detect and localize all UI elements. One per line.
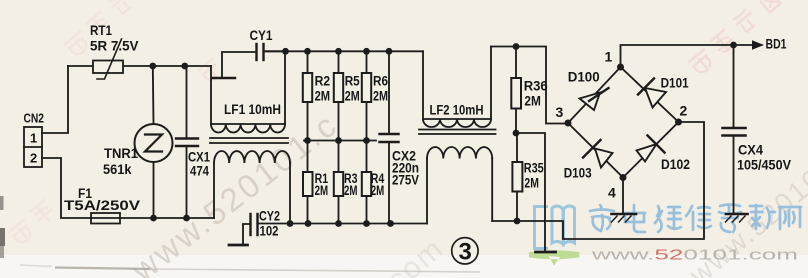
- arrow BD1: [752, 40, 764, 50]
- wire middle rail: [304, 140, 376, 142]
- svg-text:LF2 10mH: LF2 10mH: [430, 103, 484, 118]
- node 2 bridge right: [675, 119, 682, 126]
- chassis ground node 4: [612, 214, 637, 222]
- capacitor CY2: [243, 214, 258, 245]
- capacitor CX1: [176, 66, 198, 218]
- logo green swoosh: [529, 250, 580, 265]
- resistor RT1 (thermistor): [93, 39, 123, 79]
- diode D102: [637, 136, 665, 162]
- svg-text:R2: R2: [315, 73, 331, 88]
- svg-text:R5: R5: [345, 73, 360, 88]
- diode D103: [583, 140, 613, 168]
- figure number 3: [452, 238, 478, 266]
- wire upper rail 2: [264, 50, 424, 52]
- inductor LF1: [210, 51, 290, 223]
- svg-text:D100: D100: [568, 70, 600, 85]
- wire node4 to chassis ground: [622, 178, 624, 214]
- node junction R6/R4 middle: [363, 137, 370, 144]
- svg-text:www.520101.com: www.520101.com: [590, 247, 798, 264]
- node junction R36/R35: [513, 130, 520, 137]
- connector CN2: [24, 127, 42, 167]
- node 3 bridge left: [565, 120, 572, 127]
- wire CN2 pin2 to fuse: [42, 158, 91, 218]
- bridge arm D102 wire: [623, 122, 679, 178]
- svg-text:2M: 2M: [315, 183, 329, 198]
- scan artifacts: [0, 196, 480, 272]
- resistor R3: [334, 141, 343, 224]
- bottom-right site watermark: [529, 205, 801, 266]
- wire node1 to BD1 rail: [621, 45, 753, 67]
- svg-text:CN2: CN2: [24, 111, 45, 126]
- svg-text:5R 7.5V: 5R 7.5V: [90, 38, 139, 54]
- svg-text:2M: 2M: [344, 183, 358, 198]
- svg-text:3: 3: [556, 104, 564, 120]
- svg-text:CX1: CX1: [188, 150, 210, 165]
- svg-text:1: 1: [30, 131, 37, 146]
- node junction CX2 top: [386, 48, 393, 55]
- node dot R35 bottom: [514, 218, 521, 225]
- node junction LF1 top lead / CY1: [282, 48, 289, 55]
- svg-text:2: 2: [680, 103, 688, 119]
- svg-text:R36: R36: [524, 79, 548, 94]
- svg-text:D103: D103: [564, 166, 592, 181]
- svg-text:561k: 561k: [103, 162, 132, 177]
- svg-text:R6: R6: [373, 73, 388, 88]
- node 4 bridge bottom: [620, 174, 627, 181]
- inductor LF2: [419, 47, 496, 224]
- ground mid tap: [536, 251, 556, 254]
- svg-text:2M: 2M: [524, 176, 539, 191]
- svg-text:CY2: CY2: [259, 209, 280, 224]
- svg-text:2M: 2M: [373, 89, 388, 104]
- svg-text:275V: 275V: [392, 173, 419, 188]
- wire lower rail 3 with jog to node 2: [492, 122, 704, 239]
- svg-text:D102: D102: [661, 157, 690, 172]
- node junction R5 top: [335, 48, 342, 55]
- svg-text:4: 4: [608, 185, 616, 201]
- bridge arm D100 wire: [568, 67, 621, 123]
- svg-text:RT1: RT1: [90, 22, 112, 38]
- fuse F1: [91, 213, 214, 224]
- wire CN2 pin1 to top rail: [42, 66, 68, 133]
- node dot CX4 top: [730, 42, 737, 49]
- node junction R2/R1 middle: [304, 137, 311, 144]
- wire mid tap to ground line: [516, 133, 545, 252]
- svg-text:2M: 2M: [345, 89, 360, 104]
- bridge arm D101 wire: [621, 67, 679, 122]
- svg-text:1: 1: [605, 49, 613, 65]
- resistor R1: [303, 141, 313, 224]
- node junction R2 top: [304, 48, 311, 55]
- node junction bottom rail at CX1: [183, 215, 190, 222]
- node 1 bridge top: [617, 64, 624, 71]
- svg-text:LF1 10mH: LF1 10mH: [224, 102, 281, 117]
- svg-text:105/450V: 105/450V: [737, 158, 791, 173]
- ground CY2: [229, 244, 248, 247]
- bridge arm D103 wire: [568, 123, 623, 178]
- resistor R5: [334, 51, 343, 140]
- diode D100: [580, 88, 609, 110]
- wire lower rail 2: [258, 223, 428, 225]
- capacitor CX4: [723, 45, 746, 213]
- svg-text:2M: 2M: [524, 94, 541, 109]
- svg-text:102: 102: [260, 224, 279, 239]
- wire top rail left: [68, 65, 211, 67]
- svg-text:BD1: BD1: [766, 37, 787, 52]
- svg-text:D101: D101: [661, 76, 689, 91]
- resistor R36: [511, 47, 521, 134]
- capacitor CY1: [212, 44, 286, 78]
- svg-text:T5A/250V: T5A/250V: [64, 198, 140, 213]
- node junction R4 bottom: [363, 220, 370, 227]
- svg-text:3: 3: [459, 239, 472, 266]
- varistor TNR1: [135, 66, 173, 218]
- svg-text:2: 2: [30, 151, 37, 166]
- svg-text:TNR1: TNR1: [104, 146, 138, 161]
- node junction R6 top: [363, 48, 370, 55]
- node junction CX2 bottom: [387, 220, 394, 227]
- node junction top rail at TNR1: [149, 63, 156, 70]
- svg-text:R35: R35: [524, 161, 544, 176]
- chassis ground CX4: [726, 214, 748, 222]
- logo book: [535, 206, 575, 249]
- node junction R1 bottom: [305, 220, 312, 227]
- svg-text:2M: 2M: [315, 89, 331, 104]
- node junction bottom rail at TNR1: [150, 215, 157, 222]
- resistor R35: [512, 133, 522, 221]
- blue chinese characters: [590, 205, 801, 233]
- resistor R4: [362, 141, 371, 224]
- node junction LF1 bottom lead / CY2: [287, 220, 294, 227]
- resistor R2: [303, 51, 312, 140]
- diode D101: [638, 79, 666, 108]
- resistor R6: [362, 51, 371, 140]
- svg-text:CY1: CY1: [250, 28, 273, 43]
- wire upper rail 3: [491, 47, 568, 124]
- svg-text:474: 474: [190, 164, 209, 179]
- node junction R3 bottom: [335, 220, 342, 227]
- node junction top rail at CX1: [181, 63, 188, 70]
- node dot R36 top: [513, 43, 520, 50]
- capacitor CX2: [380, 51, 399, 223]
- svg-text:CX4: CX4: [738, 143, 763, 158]
- node junction R5/R3 middle: [335, 137, 342, 144]
- svg-text:2M: 2M: [371, 183, 385, 198]
